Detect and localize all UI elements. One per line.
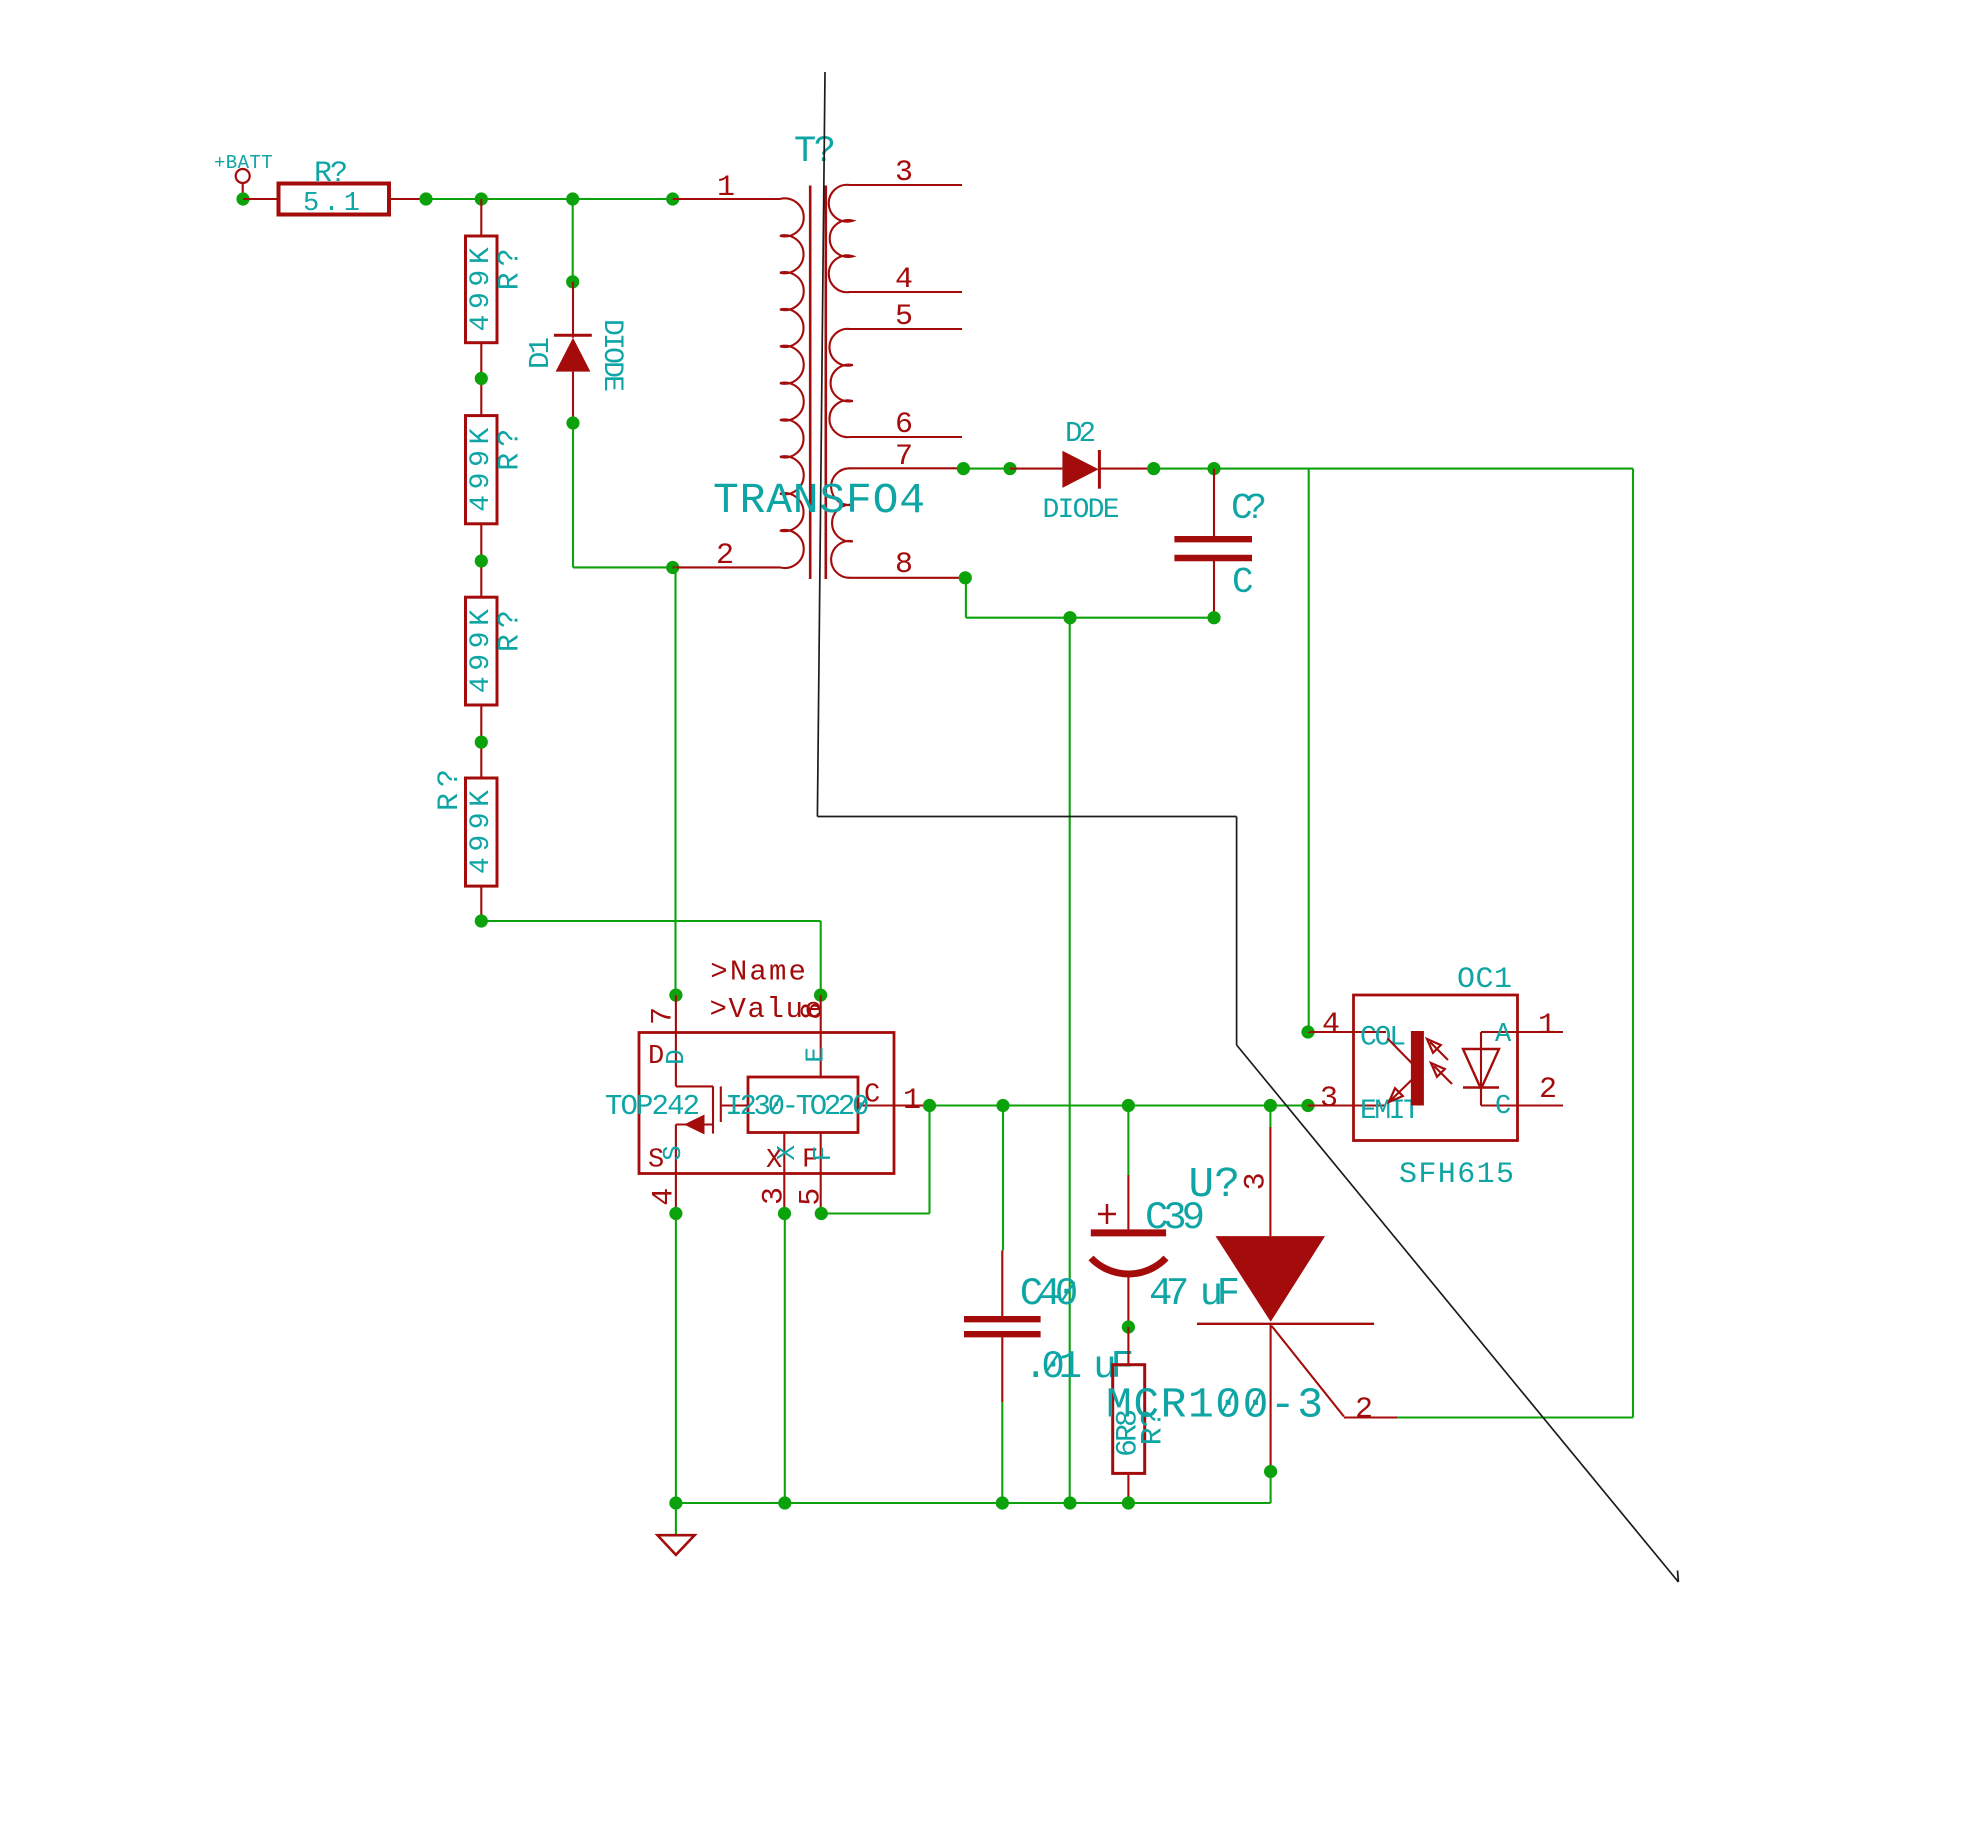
wire output net right: [1214, 468, 1633, 470]
junction dot bus 2: [778, 1496, 791, 1509]
IC pin name E teal: [801, 1047, 831, 1063]
svg-text:U?: U?: [1188, 1160, 1240, 1209]
svg-text:C: C: [1232, 562, 1254, 603]
junction dot bus 4: [1063, 1496, 1076, 1509]
wire R5.1 right pin: [389, 198, 426, 200]
junction dot bus 3: [996, 1496, 1009, 1509]
svg-text:8: 8: [797, 1002, 831, 1020]
wire mid vertical long: [1069, 618, 1071, 1503]
IC pin number 1: [903, 1084, 921, 1118]
svg-text:R?: R?: [494, 248, 528, 290]
IC mosfet: [676, 1086, 748, 1213]
junction dot OC1 pin4: [1301, 1025, 1314, 1038]
svg-text:499K: 499K: [466, 428, 497, 512]
wire D2 anode stub: [1010, 468, 1062, 470]
svg-text:X: X: [772, 1145, 802, 1161]
junction dot pin8: [959, 571, 972, 584]
thyristor U? MCR100-3: [1106, 1127, 1397, 1472]
junction dot D (pin1 node): [666, 192, 679, 205]
OC1 pin number 2: [1539, 1073, 1557, 1107]
svg-text:MCR100-3: MCR100-3: [1106, 1381, 1323, 1430]
OC1 value SFH615: [1399, 1158, 1514, 1192]
svg-text:TRANSFO4: TRANSFO4: [713, 476, 925, 525]
junction dot IC C pin: [923, 1099, 936, 1112]
svg-text:7: 7: [895, 440, 913, 474]
wire pin1 stub: [673, 198, 780, 200]
wire anode from C net: [1269, 1106, 1271, 1128]
IC name I230-TO220: [725, 1090, 869, 1123]
IC value TOP242: [605, 1090, 700, 1123]
junction dot C39 net: [1122, 1099, 1135, 1112]
diode D1: [524, 282, 627, 423]
junction dot R1-R2: [475, 372, 488, 385]
wire D1 to pin2 node: [573, 423, 673, 567]
junction dot C: [566, 192, 579, 205]
ground symbol: [658, 1503, 695, 1555]
OC1 pin name C: [1495, 1092, 1511, 1122]
transformer pin number 6: [895, 408, 913, 442]
transformer value TRANSFO4: [713, 476, 925, 525]
wire OC1 cathode pin: [1481, 1104, 1563, 1106]
resistor R? 6R8: [1112, 1365, 1171, 1474]
junction dot OC1 pin3: [1301, 1099, 1314, 1112]
svg-text:1: 1: [1538, 1009, 1556, 1043]
OC1 pin name COL: [1360, 1023, 1406, 1054]
svg-text:5.1: 5.1: [303, 189, 360, 219]
IC pin number 8: [797, 1002, 831, 1020]
resistor R? 499K #4: [433, 769, 497, 886]
junction dot R3-R4: [475, 736, 488, 749]
OC1 pin name EMIT: [1360, 1096, 1420, 1127]
svg-text:R?: R?: [494, 610, 528, 652]
junction dot D1 bottom: [566, 416, 579, 429]
wire F net: [821, 1106, 929, 1214]
supply +BATT terminal: [214, 152, 273, 199]
junction dot thyristor cathode: [1264, 1465, 1277, 1478]
junction dot bus 1: [669, 1496, 682, 1509]
wire C? bottom to pin8: [966, 578, 1214, 618]
junction dot C? bottom: [1207, 611, 1220, 624]
svg-text:DIODE: DIODE: [596, 319, 627, 392]
svg-text:I230-TO220: I230-TO220: [725, 1090, 869, 1123]
svg-text:4: 4: [895, 263, 913, 297]
svg-text:T?: T?: [794, 131, 836, 173]
wire ground bus: [676, 1502, 1271, 1504]
transformer pin number 4: [895, 263, 913, 297]
junction dot X net: [778, 1207, 791, 1220]
svg-text:3: 3: [1320, 1082, 1338, 1116]
wire stubs of 499K chain: [480, 199, 482, 921]
junction dot C? top: [1207, 462, 1220, 475]
junction dot D2 cathode: [1147, 462, 1160, 475]
OC1 label: [1457, 963, 1512, 997]
junction dot D1 top: [566, 275, 579, 288]
wire C39 top: [1127, 1106, 1129, 1176]
OC1 pin number 3: [1320, 1082, 1338, 1116]
transformer pin number 2: [716, 539, 734, 573]
svg-text:TOP242: TOP242: [605, 1090, 700, 1123]
wire C40 bottom: [1001, 1402, 1003, 1503]
IC C pin wire: [858, 1104, 930, 1106]
svg-text:SFH615: SFH615: [1399, 1158, 1514, 1192]
wire cathode to bus: [1270, 1472, 1272, 1504]
OC1 pin name A: [1495, 1020, 1512, 1050]
IC pin letter X: [766, 1146, 782, 1176]
svg-text:2: 2: [1539, 1073, 1557, 1107]
IC pin name X teal: [772, 1145, 802, 1161]
svg-text:4: 4: [647, 1188, 681, 1206]
IC pin name F teal: [808, 1146, 838, 1162]
junction dot D2 anode: [1003, 462, 1016, 475]
wire OC1 anode pin: [1481, 1031, 1563, 1033]
IC E pin wire: [820, 995, 822, 1077]
svg-text:3: 3: [758, 1187, 792, 1205]
wire top net: [426, 198, 673, 200]
transformer pin number 1: [717, 171, 735, 205]
IC pin number 4: [647, 1188, 681, 1206]
svg-text:C40: C40: [1020, 1272, 1079, 1316]
wire 6R8 to bus: [1127, 1473, 1129, 1503]
wire pin7 to D2: [963, 468, 1010, 470]
IC pin name S teal: [658, 1145, 688, 1161]
junction dot chain bottom: [475, 914, 488, 927]
wire pin2 stub: [673, 566, 780, 568]
junction dot B: [475, 192, 488, 205]
wire OC1 collector pin: [1308, 1031, 1386, 1033]
junction dot S net: [669, 1207, 682, 1220]
wire top to D1: [572, 199, 574, 282]
svg-text:3: 3: [895, 156, 913, 190]
svg-text:D: D: [661, 1049, 691, 1065]
transformer secondary 5-6: [829, 329, 962, 437]
transformer T? primary winding: [780, 198, 804, 568]
resistor R? 5.1: [279, 157, 390, 219]
svg-text:R?: R?: [433, 769, 467, 811]
junction dot pin7: [957, 462, 970, 475]
IC pin letter F: [802, 1146, 818, 1176]
wire pin2 node to IC drain: [674, 568, 676, 996]
svg-text:D1: D1: [524, 337, 557, 369]
svg-text:499K: 499K: [466, 609, 497, 693]
svg-text:8: 8: [895, 548, 913, 582]
svg-text:+BATT: +BATT: [214, 152, 273, 174]
wire chain bottom to E pin: [481, 921, 820, 995]
junction dot R2-R3: [475, 554, 488, 567]
svg-text:D2: D2: [1065, 417, 1096, 450]
OC1 pin number 4: [1322, 1008, 1340, 1042]
resistor R? 499K #2: [466, 416, 528, 524]
svg-text:S: S: [658, 1145, 688, 1161]
resistor R? 499K #1: [466, 236, 528, 343]
svg-text:E: E: [801, 1047, 831, 1063]
IC pin letter C: [864, 1081, 880, 1111]
junction dot mid-bottom net: [1063, 611, 1076, 624]
transformer pin number 3: [895, 156, 913, 190]
IC pin number 3: [758, 1187, 792, 1205]
svg-text:47 uF: 47 uF: [1149, 1272, 1240, 1316]
svg-text:5: 5: [895, 300, 913, 334]
black fold line horizontal: [817, 816, 1236, 818]
wire gate net: [1397, 469, 1633, 1418]
wire feedback from top net: [1308, 469, 1310, 1032]
slashed zeros overlay: [772, 1098, 1261, 1413]
OC1 light arrows: [1427, 1039, 1452, 1084]
wire C net: [930, 1104, 1309, 1106]
junction dot thyristor anode: [1264, 1099, 1277, 1112]
junction dot pin2 node: [666, 561, 679, 574]
black fold line diagonal: [1237, 1045, 1679, 1582]
capacitor C?: [1174, 469, 1267, 618]
svg-text:5: 5: [794, 1188, 828, 1206]
junction dot at +BATT: [236, 192, 249, 205]
junction dot F net corner: [815, 1207, 828, 1220]
junction dot IC E pin: [814, 989, 827, 1002]
junction dot A: [419, 192, 432, 205]
svg-text:>Name: >Name: [710, 956, 806, 989]
wire D2 to C? node: [1154, 468, 1214, 470]
wire S to bus: [675, 1214, 677, 1504]
svg-text:6: 6: [895, 408, 913, 442]
black fold line vertical: [817, 72, 825, 817]
transformer secondary 7-8: [831, 468, 965, 578]
IC inner control box: [748, 1077, 858, 1133]
resistor R? 499K #3: [466, 597, 528, 705]
svg-text:4: 4: [1322, 1008, 1340, 1042]
svg-text:2: 2: [1355, 1393, 1373, 1427]
svg-text:R?: R?: [494, 429, 528, 471]
wire X to bus: [784, 1214, 786, 1504]
svg-text:OC1: OC1: [1457, 963, 1512, 997]
wire C39 to 6R8: [1127, 1327, 1129, 1365]
junction dot IC D pin: [669, 989, 682, 1002]
junction dot C40 net: [996, 1099, 1009, 1112]
transformer pin number 5: [895, 300, 913, 334]
svg-text:F: F: [808, 1146, 838, 1162]
svg-text:A: A: [1495, 1020, 1512, 1050]
svg-text:C: C: [1495, 1092, 1511, 1122]
wire +BATT to R5.1: [243, 198, 279, 200]
svg-text:C?: C?: [1231, 488, 1267, 529]
transformer pin number 7: [895, 440, 913, 474]
IC value placeholder: [710, 993, 823, 1026]
svg-text:1: 1: [717, 171, 735, 205]
junction dot C39-R: [1122, 1320, 1135, 1333]
diode D2: [1043, 417, 1154, 526]
svg-text:7: 7: [647, 1007, 681, 1025]
svg-text:1: 1: [903, 1084, 921, 1118]
OC1 pin number 1: [1538, 1009, 1556, 1043]
OC1 phototransistor: [1388, 1031, 1424, 1106]
capacitor C39 electrolytic: [1091, 1175, 1240, 1327]
IC pin letter D: [648, 1042, 664, 1072]
black fold line down: [1236, 817, 1238, 1046]
wire C40 top: [1002, 1106, 1004, 1251]
transformer name T?: [794, 131, 836, 173]
junction dot bus 5: [1122, 1496, 1135, 1509]
IC pin letter S: [648, 1146, 664, 1176]
svg-text:499K: 499K: [466, 790, 497, 874]
IC D pin wire: [675, 995, 677, 1086]
transformer pin number 8: [895, 548, 913, 582]
transformer secondary 3-4: [829, 185, 962, 292]
IC pin number 5: [794, 1188, 828, 1206]
IC name placeholder: [710, 956, 806, 989]
svg-text:2: 2: [716, 539, 734, 573]
capacitor C40: [964, 1250, 1134, 1402]
IC F pin wire: [820, 1133, 822, 1214]
IC pin name D teal: [661, 1049, 691, 1065]
svg-text:499K: 499K: [466, 247, 497, 331]
svg-text:3: 3: [1240, 1172, 1274, 1190]
svg-text:DIODE: DIODE: [1043, 495, 1120, 526]
svg-text:R?: R?: [314, 157, 348, 191]
IC pin number 7: [647, 1007, 681, 1025]
OC1 led: [1463, 1032, 1499, 1106]
optocoupler OC1 box: [1354, 995, 1518, 1141]
IC U1 outer box: [639, 1033, 894, 1174]
transformer core: [810, 186, 826, 580]
IC X pin wire: [783, 1133, 785, 1214]
wire OC1 emitter pin: [1308, 1104, 1386, 1106]
